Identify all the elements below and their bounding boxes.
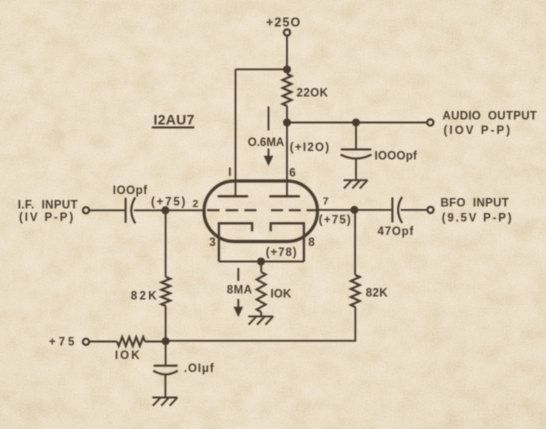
svg-text:7: 7 [323, 196, 329, 208]
node junction BFO and 82K [350, 206, 358, 214]
svg-text:(IV P-P): (IV P-P) [19, 212, 75, 224]
cathode pin 3 [219, 223, 252, 261]
arrow 0.6MA upper segment [268, 107, 270, 131]
wire plate-1 vertical lead (pin 1) [235, 69, 237, 196]
svg-text:8MA: 8MA [227, 284, 253, 296]
capacitor .01uf [153, 366, 178, 375]
ground under .01uf [152, 397, 177, 399]
svg-text:(+75): (+75) [151, 196, 187, 208]
wire +250 lead down [286, 36, 288, 69]
wire plate-2 vertical lead (pin 6) [286, 123, 288, 197]
svg-text:6: 6 [289, 167, 295, 179]
svg-text:.OIμf: .OIμf [184, 363, 215, 375]
terminal BFO input [427, 207, 433, 213]
grid pin 2 dashed line [207, 209, 257, 211]
svg-text:22OK: 22OK [297, 88, 329, 100]
svg-text:(IOV P-P): (IOV P-P) [444, 125, 513, 137]
wire 10K to junction [145, 341, 166, 343]
svg-text:I.F. INPUT: I.F. INPUT [18, 199, 78, 211]
ground under 10K [248, 315, 273, 317]
wire 10K to ground [260, 312, 262, 316]
plate pin 6 bar [269, 195, 300, 197]
terminal audio output [427, 119, 433, 125]
svg-text:82K: 82K [366, 288, 389, 300]
svg-text:47Opf: 47Opf [378, 226, 415, 238]
resistor 220K [283, 74, 292, 106]
wire .01uf top lead [165, 341, 167, 365]
grid pin 7 dashed line [271, 209, 319, 211]
svg-text:IOOpf: IOOpf [113, 185, 148, 197]
node junction 1000pf tap [352, 119, 360, 127]
node junction grid-1 bias tap [161, 206, 169, 214]
svg-text:I: I [228, 167, 231, 179]
svg-text:BFO INPUT: BFO INPUT [441, 198, 510, 210]
wire grid-1 down to 82K left [165, 210, 167, 277]
capacitor 100pf [126, 197, 136, 223]
terminal +250 [284, 29, 290, 35]
svg-text:+25O: +25O [266, 16, 301, 30]
node junction +75 bias [162, 337, 170, 345]
svg-text:(+I2O): (+I2O) [290, 142, 331, 154]
wire 220K bottom lead [286, 106, 288, 123]
wire 100pf to grid pin 2 [134, 209, 205, 211]
svg-text:2: 2 [193, 198, 199, 210]
resistor 10K cathode [257, 272, 266, 312]
terminal +75 [83, 339, 89, 345]
svg-text:AUDIO OUTPUT: AUDIO OUTPUT [443, 111, 538, 123]
svg-text:8: 8 [308, 237, 315, 249]
svg-text:IOOOpf: IOOOpf [375, 150, 418, 162]
node junction cathode (+78) [257, 258, 265, 266]
capacitor 1000pf [341, 149, 372, 158]
wire cathode bottom bus [219, 261, 304, 263]
arrow 8MA lower segment with head [237, 299, 239, 309]
wire 82K left bottom lead [165, 306, 167, 341]
arrow 8MA upper segment [237, 268, 239, 281]
node junction of +250 and 220K [283, 66, 291, 74]
wire 470pf to BFO terminal [401, 209, 428, 211]
wire audio output horizontal [287, 122, 427, 124]
capacitor 470pf [392, 197, 402, 223]
plate pin 1 bar [218, 195, 249, 197]
svg-text:I2AU7: I2AU7 [154, 112, 195, 128]
svg-text:O.6MA: O.6MA [248, 137, 284, 149]
underline of 12AU7 [152, 126, 195, 128]
arrow 0.6MA lower segment with head [268, 149, 270, 158]
resistor 82K right [351, 275, 360, 307]
wire bottom bus to 82K right riser [166, 307, 356, 341]
wire .01uf bottom lead [164, 375, 166, 398]
svg-text:(+75): (+75) [319, 215, 352, 227]
svg-text:(9.5V P-P): (9.5V P-P) [442, 213, 514, 225]
resistor 10K bias [117, 337, 145, 346]
wire BFO junction down to 82K right [354, 210, 356, 275]
svg-text:3: 3 [209, 237, 215, 249]
node junction plate node (+120) [283, 119, 291, 127]
tube V1 12AU7 envelope [204, 181, 318, 242]
wire grid pin 7 to BFO cap [319, 209, 393, 211]
wire +75 to 10K [89, 341, 117, 343]
ground under 1000pf [344, 179, 368, 181]
wire top horizontal to plate-1 branch [236, 68, 288, 70]
resistor 82K left [161, 277, 170, 306]
wire 1000pf top lead [355, 123, 357, 150]
svg-text:82K: 82K [131, 290, 159, 302]
svg-text:(+78): (+78) [266, 247, 298, 259]
cathode pin 8 [271, 223, 304, 261]
wire cathode to 10K [260, 262, 262, 273]
svg-text:IOK: IOK [271, 288, 293, 300]
svg-text:+75: +75 [49, 337, 78, 349]
wire 1000pf bottom lead [355, 159, 357, 180]
terminal I.F. input [83, 207, 89, 213]
svg-text:IOK: IOK [115, 350, 142, 362]
wire I.F. input to coupling cap [89, 209, 125, 211]
